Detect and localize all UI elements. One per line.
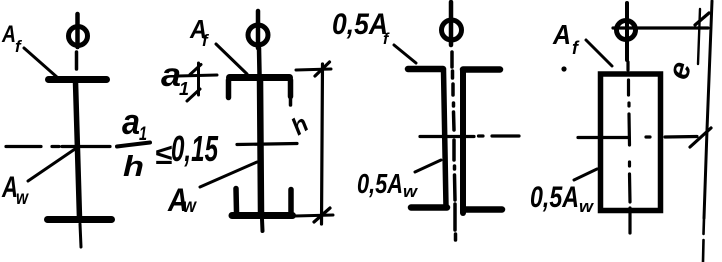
stray ink dot section 4: [561, 66, 566, 71]
label Af section 4: [552, 19, 580, 58]
bottom flange section 2: [232, 212, 293, 219]
mid leader line (0,15 pointer) section 2: [237, 144, 297, 145]
svg-text:0,5A: 0,5A: [530, 181, 579, 214]
right channel bottom flange section 3: [465, 206, 502, 213]
right channel web section 3: [460, 70, 466, 213]
dimension line a1 section 2: [197, 63, 200, 95]
leader 0,5Aw section 3: [415, 160, 441, 172]
horizontal centerline section 1 (dash-dot): [6, 145, 110, 148]
load point circle (phi symbol) section 2: [248, 25, 268, 45]
svg-text:h: h: [123, 151, 144, 183]
axis segment circle-to-flange section 2: [257, 48, 262, 74]
axis line through circle section 1: [75, 14, 80, 47]
bottom flange left lip section 2: [233, 189, 239, 213]
horizontal centerline section 3 (dash-dot): [420, 134, 519, 138]
svg-text:0,15: 0,15: [171, 128, 219, 169]
svg-text:1: 1: [179, 79, 189, 99]
top flange section 1: [49, 76, 107, 83]
horizontal centerline section 4 (dash-dot): [578, 137, 697, 138]
leader Af section 4: [586, 40, 612, 66]
tick bottom a1 section 2: [187, 89, 200, 101]
vertical centerline between webs section 3 (dash-dot): [452, 52, 456, 240]
extension line a1 section 2: [178, 75, 217, 76]
leader Aw section 1: [28, 149, 75, 181]
leader Af section 1: [24, 48, 58, 78]
axis line through circle section 4: [625, 3, 629, 60]
leader Aw section 2: [200, 162, 257, 187]
right border lower dashed part section 4: [703, 218, 704, 262]
dimension line h section 2: [322, 64, 323, 224]
extension line h bottom section 2: [295, 215, 333, 216]
vertical centerline section 4 (dash-dot): [628, 62, 630, 233]
svg-text:w: w: [183, 196, 197, 217]
tick top h section 2: [315, 62, 330, 76]
box outline section 4: [601, 74, 661, 211]
svg-text:A: A: [552, 19, 571, 50]
leader 0,5Af section 3: [394, 45, 416, 63]
right channel top flange section 3: [463, 66, 500, 73]
svg-text:0,5A: 0,5A: [332, 8, 388, 41]
label h (rotated) section 2: [287, 110, 314, 141]
svg-text:0,5A: 0,5A: [357, 168, 403, 199]
label a1 (lip depth) section 2: [161, 56, 189, 99]
fraction bar: [117, 143, 150, 147]
tick on e dimension at centerline section 4: [690, 128, 711, 147]
svg-text:w: w: [403, 182, 419, 201]
label 0,5Af section 3: [332, 8, 390, 48]
bottom flange right lip section 2: [288, 190, 294, 213]
svg-text:w: w: [16, 188, 29, 209]
label Aw section 1: [1, 171, 29, 209]
axis line through circle section 3: [449, 2, 454, 45]
load point circle (cross symbol) section 4: [617, 21, 636, 40]
label Af section 1: [1, 21, 23, 56]
label 0,5Aw section 4: [530, 181, 595, 216]
label e (rotated) section 4: [662, 58, 698, 83]
svg-text:w: w: [579, 197, 595, 216]
left channel web section 3: [444, 70, 447, 207]
svg-text:≤: ≤: [155, 139, 172, 171]
svg-text:A: A: [1, 21, 16, 48]
load point circle (phi symbol) section 1: [69, 27, 88, 46]
leader Af section 2: [216, 44, 247, 74]
top flange right lip section 2: [288, 80, 294, 97]
extension line h top section 2: [296, 69, 331, 70]
extension line e top (through circle) section 4: [613, 26, 708, 29]
web section 1: [76, 82, 80, 218]
axis stub below bottom flange section 1: [80, 224, 81, 247]
formula a1/h <= 0,15: [122, 101, 219, 183]
load point circle (phi symbol) section 3: [442, 20, 462, 40]
leader 0,5Aw section 4: [574, 169, 597, 180]
left channel bottom flange section 3: [411, 204, 447, 211]
label Aw section 2: [167, 182, 197, 218]
axis dash below circle section 1: [75, 52, 79, 69]
axis stub below bottom flange section 2: [260, 219, 265, 231]
right border / dimension line section 4: [704, 1, 712, 218]
tick bottom h section 2: [314, 208, 330, 222]
bottom flange section 1: [48, 216, 112, 223]
label Af section 2: [189, 14, 210, 50]
top flange section 2: [230, 74, 290, 81]
left channel top flange section 3: [408, 66, 443, 73]
svg-text:a: a: [122, 101, 140, 142]
top flange left lip section 2: [226, 80, 232, 98]
tick on e dimension at top section 4: [695, 13, 709, 25]
web section 2: [260, 78, 261, 212]
axis line through circle section 2: [256, 11, 261, 48]
doubled pen line near top section 4: [698, 9, 700, 64]
label 0,5Aw section 3: [357, 168, 419, 201]
stray ascender mark above h label section 2: [289, 96, 293, 105]
tick top a1 section 2: [190, 65, 201, 75]
